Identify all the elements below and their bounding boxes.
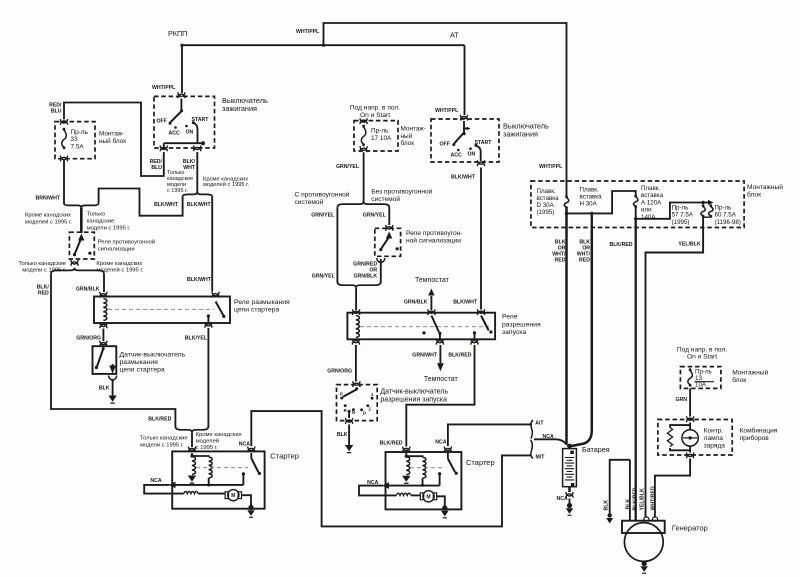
note except canadian models 2 bbox=[25, 213, 72, 226]
svg-text:RED/: RED/ bbox=[150, 159, 163, 165]
svg-text:WHT/PPL: WHT/PPL bbox=[435, 108, 459, 114]
ignition switch 2 name bbox=[503, 122, 549, 139]
svg-text:M: M bbox=[231, 493, 235, 499]
connector enable sensor bottom bbox=[346, 418, 353, 424]
svg-text:(1995): (1995) bbox=[537, 209, 555, 216]
starter cut-out sensor name bbox=[120, 352, 186, 374]
svg-text:Стартер: Стартер bbox=[270, 452, 299, 461]
junction at step bbox=[322, 44, 325, 47]
starter 1 switch lever bbox=[251, 458, 258, 472]
svg-text:зажигания: зажигания bbox=[222, 104, 257, 113]
wire BLK-WHT/RED 2 to battery bbox=[572, 230, 592, 446]
svg-text:60 7.5А: 60 7.5А bbox=[715, 212, 737, 219]
connector starter 2 left terminal bbox=[403, 447, 410, 453]
wire BLK/RED long left loop bbox=[51, 274, 175, 427]
svg-text:GRN/WHT: GRN/WHT bbox=[412, 353, 438, 359]
junction switch 2 branch bbox=[463, 127, 466, 130]
wire enable sensor out bbox=[348, 411, 350, 418]
enable sensor contact 1 bbox=[371, 397, 374, 400]
svg-text:BLK/RED: BLK/RED bbox=[380, 440, 403, 446]
contact OFF switch 1 bbox=[169, 122, 172, 125]
svg-text:BLK: BLK bbox=[603, 500, 609, 511]
contact ACC switch 2 bbox=[457, 149, 460, 152]
svg-text:YEL/BLK: YEL/BLK bbox=[639, 488, 645, 510]
antitheft relay 1 aux contact bbox=[88, 252, 91, 255]
svg-text:A/T: A/T bbox=[535, 421, 544, 427]
wire BLK/WHT switch 1 down bbox=[196, 152, 198, 192]
contact OFF switch 2 bbox=[452, 143, 455, 146]
connector fuse 17 bottom bbox=[360, 146, 367, 152]
svg-text:Реле противоугонной: Реле противоугонной bbox=[98, 239, 155, 246]
cut-out sensor pin bbox=[102, 347, 105, 350]
wire start relay sw1 to bottom bbox=[439, 333, 441, 338]
connector fuse 17 top bbox=[360, 118, 367, 124]
svg-text:OFF: OFF bbox=[157, 118, 167, 124]
svg-text:блок: блок bbox=[401, 139, 415, 147]
note under voltage On Start 2 bbox=[677, 347, 727, 361]
svg-text:цепи стартера: цепи стартера bbox=[234, 306, 279, 313]
junction switch 2 lever pivot bbox=[463, 132, 466, 135]
antitheft relay 1 arrow bbox=[78, 234, 84, 241]
wire label BLK OR WHT/RED 2 bbox=[577, 240, 591, 264]
start relay lever 2 bbox=[481, 316, 489, 331]
connector starter 1 NCA terminal bbox=[248, 447, 255, 453]
svg-text:Батарея: Батарея bbox=[582, 445, 610, 454]
svg-text:BLK/WHT: BLK/WHT bbox=[453, 299, 478, 305]
connector ignition switch 1 top bbox=[178, 92, 185, 98]
connector fuse 33 top bbox=[60, 119, 67, 125]
svg-text:RED: RED bbox=[555, 258, 566, 264]
wire NCA to battery bbox=[534, 439, 567, 445]
starter cut-out relay box bbox=[94, 297, 230, 324]
wire starter 1 hold winding down bbox=[208, 478, 210, 485]
wire NCA starter 1 long loop bbox=[251, 411, 531, 526]
ignition switch 2 box bbox=[431, 119, 499, 162]
svg-text:Темпостат: Темпостат bbox=[424, 376, 459, 383]
connector antitheft relay 2 out bbox=[377, 258, 385, 263]
svg-text:BLU: BLU bbox=[151, 165, 162, 171]
fuse 33 value label bbox=[71, 129, 89, 151]
wire battery bottom bbox=[568, 487, 571, 492]
svg-text:GRN/YEL: GRN/YEL bbox=[363, 213, 387, 219]
svg-text:системой: системой bbox=[295, 198, 324, 206]
connector cut-out sensor top bbox=[100, 341, 107, 347]
start enable sensor box bbox=[337, 385, 378, 421]
svg-text:GRN: GRN bbox=[676, 397, 688, 403]
connector starter 2 NCA terminal bbox=[444, 447, 451, 453]
svg-text:Н 30А: Н 30А bbox=[580, 201, 598, 208]
enable sensor contact R bbox=[344, 404, 347, 407]
junction D 30A tap bbox=[565, 212, 568, 215]
starter cut-out relay coil bbox=[103, 299, 106, 321]
contact ON switch 2 bbox=[469, 147, 472, 150]
merge BLK/RED + BLK/YEL into starter 1 bbox=[175, 427, 208, 433]
wire starter 1 motor loop bbox=[144, 485, 184, 494]
note except canadian models 4 bbox=[196, 432, 242, 451]
connector battery bottom bbox=[566, 492, 573, 498]
svg-text:10А: 10А bbox=[695, 381, 707, 388]
battery symbol bbox=[563, 449, 577, 487]
wire motor 2 to ground bbox=[437, 496, 445, 506]
starter cut-out relay mech dash bbox=[108, 308, 214, 310]
wire inside switch 1 bbox=[180, 99, 182, 112]
svg-text:WHT/PPL: WHT/PPL bbox=[152, 85, 176, 91]
wire lamp parallel top bbox=[670, 423, 690, 453]
svg-text:BLK/WHT: BLK/WHT bbox=[187, 277, 212, 283]
start relay aux dot bbox=[422, 331, 425, 334]
svg-text:D 30А: D 30А bbox=[537, 202, 555, 209]
wire YEL/BLK jog down bbox=[646, 218, 704, 266]
svg-text:Без противоугонной: Без противоугонной bbox=[371, 188, 432, 196]
wire GRN/WHT thermostat bbox=[439, 345, 441, 364]
ground enable sensor bbox=[345, 445, 353, 453]
fuse Пр-ль 17 10A bbox=[361, 125, 366, 146]
cut-out sensor contact bbox=[95, 366, 98, 369]
svg-text:BLK/: BLK/ bbox=[183, 159, 196, 165]
wire GRN/ORG to sensor bbox=[355, 345, 357, 382]
svg-text:Плавк.: Плавк. bbox=[641, 185, 660, 192]
wire A 120A down jog bbox=[636, 203, 711, 219]
svg-text:START: START bbox=[475, 140, 493, 146]
wire BLK/RED relay to starter 2 bbox=[406, 345, 474, 447]
svg-text:BLU: BLU bbox=[51, 109, 62, 115]
svg-text:BLK/RED: BLK/RED bbox=[448, 353, 471, 359]
svg-text:Под напр. в пол.: Под напр. в пол. bbox=[350, 105, 400, 112]
fusible link D label bbox=[537, 188, 560, 216]
svg-text:GRN/ORG: GRN/ORG bbox=[76, 335, 101, 341]
note except canadian models 3 bbox=[96, 261, 143, 274]
cut-out sensor arrow bbox=[109, 366, 116, 374]
svg-text:Комбинация: Комбинация bbox=[740, 427, 778, 435]
note only canadian models 2 bbox=[87, 212, 131, 232]
junction starter 1 windings bbox=[190, 454, 193, 457]
svg-text:Монтаж-: Монтаж- bbox=[401, 126, 426, 133]
ground starter 1 bbox=[247, 505, 255, 517]
enable sensor out dot bbox=[348, 410, 351, 413]
connector A/T-M/T brace bbox=[531, 420, 533, 459]
svg-text:17 10А: 17 10А bbox=[371, 135, 392, 142]
svg-text:Темпостат: Темпостат bbox=[415, 277, 450, 284]
svg-text:START: START bbox=[192, 117, 210, 123]
charge lamp name bbox=[704, 428, 726, 450]
start enable sensor name bbox=[380, 389, 448, 404]
connector switch 1 BLK/WHT terminal bbox=[194, 146, 201, 152]
starter cut-out relay contact right bbox=[222, 315, 225, 318]
svg-text:блок: блок bbox=[732, 376, 746, 384]
starter 1 fixed contact bbox=[242, 472, 245, 475]
wire jog D to A bbox=[567, 191, 636, 213]
svg-text:P: P bbox=[340, 391, 343, 396]
svg-text:Плавк.: Плавк. bbox=[580, 187, 599, 194]
connector switch 2 BLK/WHT terminal bbox=[477, 160, 484, 166]
wire merged to start relay bbox=[355, 288, 357, 310]
wire into starter 1 bbox=[191, 432, 193, 447]
svg-text:размыкания: размыкания bbox=[120, 359, 159, 366]
fuse block 33 box (Монтажный блок) bbox=[55, 122, 95, 159]
connector relay 1 coil top bbox=[100, 292, 107, 298]
fusible link H label bbox=[580, 187, 603, 208]
charge lamp bulb bbox=[682, 430, 698, 446]
junction starter 2 windings bbox=[405, 455, 408, 458]
svg-text:ON: ON bbox=[468, 152, 476, 158]
contact ON switch 1 bbox=[185, 125, 188, 128]
starter 2 mech dash bbox=[410, 467, 445, 469]
wire to antitheft relay 1 bbox=[80, 208, 83, 233]
wire starter 1 entry bbox=[191, 453, 193, 456]
svg-text:GRN/ORG: GRN/ORG bbox=[327, 368, 352, 374]
ground generator bbox=[640, 561, 648, 573]
enable sensor contact P bbox=[340, 397, 343, 400]
svg-text:ACC: ACC bbox=[451, 153, 462, 159]
svg-text:GRN/BLK: GRN/BLK bbox=[353, 273, 377, 279]
wire starter 2 winding link bbox=[406, 455, 422, 458]
wire NCA starter 2 up bbox=[448, 424, 532, 446]
wire inside switch 2 bbox=[463, 121, 465, 133]
wire starter 2 NCA terminal down bbox=[447, 453, 449, 459]
svg-text:NCA: NCA bbox=[435, 440, 446, 446]
connector antitheft relay 2 top bbox=[386, 225, 393, 231]
svg-text:ный блок: ный блок bbox=[99, 137, 126, 145]
wire GRN/BLK thermostat bbox=[430, 296, 432, 310]
note without antitheft system bbox=[371, 188, 432, 203]
wire GRN down bbox=[689, 388, 691, 416]
svg-text:АТ: АТ bbox=[450, 31, 459, 40]
start enable relay coil bbox=[356, 316, 359, 338]
switch 1 lever pivot bbox=[180, 109, 183, 112]
wire BLK/WHT right branch down bbox=[211, 197, 213, 292]
thermostat arrow up bbox=[428, 289, 434, 296]
connector instrument cluster top bbox=[687, 416, 694, 422]
svg-text:Пр-ль: Пр-ль bbox=[672, 205, 689, 212]
contact START switch 2 bbox=[474, 144, 477, 147]
svg-text:ON: ON bbox=[186, 129, 194, 135]
svg-text:ACC: ACC bbox=[169, 131, 180, 137]
svg-text:цепи стартера: цепи стартера bbox=[120, 367, 165, 374]
svg-text:OFF: OFF bbox=[440, 142, 450, 148]
switch 2 lever OFF bbox=[454, 133, 464, 144]
junction H 30A tap bbox=[590, 212, 593, 215]
wire BLK/WHT left branch loop bbox=[99, 189, 183, 216]
svg-text:N: N bbox=[352, 410, 355, 415]
fuse Пр-ль 33 7.5A bbox=[62, 128, 67, 149]
starter cut-out relay name bbox=[234, 299, 290, 313]
svg-text:GRN/YEL: GRN/YEL bbox=[312, 273, 336, 279]
svg-text:Монтаж-: Монтаж- bbox=[99, 131, 124, 138]
wire BRN/WHT fuse 33 down bbox=[63, 160, 65, 205]
starter 2 motor inductor bbox=[396, 493, 410, 495]
connector instrument cluster bottom bbox=[687, 453, 694, 459]
wire START 2 contact down bbox=[476, 146, 481, 161]
note under voltage On Start 1 bbox=[350, 105, 400, 120]
ground starter 1 winding bbox=[188, 476, 196, 484]
wire BLK-WHT/RED 1 to battery bbox=[565, 209, 568, 445]
connector fuse 33 bottom bbox=[60, 156, 67, 162]
junction fuse 57 tap bbox=[701, 201, 704, 204]
fuse 13 value label bbox=[695, 369, 712, 389]
wire BLK ground loop bbox=[610, 460, 630, 514]
starter 2 pull-in winding bbox=[406, 457, 409, 475]
svg-text:RED/: RED/ bbox=[49, 103, 62, 109]
svg-text:WHT/PPL: WHT/PPL bbox=[296, 29, 320, 35]
connector relay 1 coil bottom bbox=[100, 323, 107, 329]
svg-text:GRN/BLK: GRN/BLK bbox=[404, 299, 428, 305]
svg-text:GRN/YEL: GRN/YEL bbox=[336, 164, 360, 170]
svg-text:Под напр. в пол.: Под напр. в пол. bbox=[677, 347, 727, 354]
wire inductor to motor 2 bbox=[411, 494, 420, 496]
starter 1 hold winding bbox=[209, 457, 212, 478]
ground cut-out sensor bbox=[108, 396, 116, 404]
fuse Пр-ль 57 7.5A bbox=[701, 204, 706, 217]
start relay contact 2 bbox=[489, 330, 492, 333]
wire BLK to ground bbox=[112, 379, 114, 396]
start relay lever 1 bbox=[431, 316, 439, 333]
starter cut-out relay contact left bbox=[207, 314, 210, 317]
wire starter 1 NCA terminal down bbox=[250, 453, 252, 458]
svg-text:Кроме канадских: Кроме канадских bbox=[96, 261, 142, 267]
svg-text:BLK/WHT: BLK/WHT bbox=[187, 202, 212, 208]
split antitheft middle bbox=[337, 202, 389, 208]
fuse 13 underline bbox=[695, 381, 715, 383]
svg-text:Только канадские: Только канадские bbox=[18, 261, 66, 267]
svg-text:Стартер: Стартер bbox=[466, 458, 495, 467]
wire switch 1 internal link bbox=[164, 143, 203, 147]
svg-text:Кроме канадских: Кроме канадских bbox=[25, 213, 71, 219]
starter 2 switch contact bbox=[455, 472, 458, 475]
starter 2 switch lever bbox=[448, 459, 455, 472]
wire starter 1 contact down bbox=[242, 474, 244, 485]
starter 1 switch contact bbox=[258, 472, 261, 475]
starter 1 mech dash bbox=[196, 467, 248, 469]
wire starter 2 contact down bbox=[439, 474, 441, 486]
starter 1 motor M bbox=[225, 490, 241, 501]
fuse block right box bbox=[531, 181, 744, 228]
wire WHT/PPL AT down to right ignition switch bbox=[464, 45, 466, 115]
antitheft relay 2 contact bbox=[379, 248, 382, 251]
start enable relay box bbox=[347, 313, 495, 340]
connector start relay coil top bbox=[353, 309, 360, 315]
connector switch 1 RED/BLU terminal bbox=[160, 146, 167, 152]
svg-text:разрешения запуска: разрешения запуска bbox=[380, 397, 447, 404]
antitheft relay 1 lever bbox=[75, 240, 81, 254]
connector start relay sw2 bottom bbox=[471, 339, 478, 345]
wire label RED/BLU under switch 1 bbox=[150, 159, 163, 171]
antitheft relay 2 lever bbox=[381, 238, 388, 249]
svg-text:33: 33 bbox=[71, 136, 79, 143]
svg-text:модели с 1995 г.: модели с 1995 г. bbox=[140, 442, 184, 448]
resistor charge lamp bbox=[667, 428, 672, 447]
junction switch 1 link end bbox=[201, 141, 205, 145]
svg-text:On и Start: On и Start bbox=[687, 354, 717, 361]
wire BLK to ground 2 bbox=[348, 425, 350, 446]
svg-text:BLK/WHT: BLK/WHT bbox=[154, 202, 179, 208]
generator terminals bbox=[644, 517, 649, 521]
starter 1 NCA arrow bbox=[169, 482, 176, 489]
svg-text:Реле: Реле bbox=[502, 314, 518, 321]
wire starter 2 hold winding down bbox=[422, 478, 424, 485]
svg-text:Только канадские: Только канадские bbox=[140, 436, 188, 442]
antitheft relay 2 box bbox=[375, 228, 401, 256]
junction РКПП node bbox=[180, 44, 183, 47]
cut-out sensor out stub bbox=[112, 364, 114, 368]
svg-text:BLK/RED: BLK/RED bbox=[148, 417, 171, 423]
connector cut-out sensor bottom bbox=[109, 376, 117, 381]
svg-text:моделей с 1995 г.: моделей с 1995 г. bbox=[25, 219, 72, 226]
starter 2 fixed contact bbox=[438, 472, 441, 475]
enable sensor pin bbox=[355, 387, 358, 390]
contact ACC switch 1 bbox=[174, 126, 177, 129]
svg-text:7.5А: 7.5А bbox=[71, 143, 85, 150]
fusible link A 120A bbox=[633, 195, 638, 208]
fuse block 13 name bbox=[732, 369, 768, 385]
svg-text:вставка: вставка bbox=[537, 195, 560, 202]
note only canadian models 1 bbox=[167, 170, 193, 194]
antitheft relay 1 contact bbox=[73, 253, 76, 256]
svg-text:Пр-ль: Пр-ль bbox=[71, 129, 89, 136]
ground starter 2 bbox=[441, 505, 449, 517]
svg-text:M: M bbox=[426, 494, 430, 500]
svg-text:приборов: приборов bbox=[740, 434, 770, 442]
fuse 60 label bbox=[715, 205, 741, 226]
wire inductor to motor 1 bbox=[198, 493, 225, 495]
svg-text:системой: системой bbox=[371, 195, 400, 203]
wire START contact down bbox=[193, 123, 197, 143]
start relay contact 2b bbox=[473, 331, 476, 334]
junction A 120A bbox=[634, 217, 637, 220]
connector start relay sw1 top bbox=[428, 309, 435, 315]
connector start relay sw2 top bbox=[477, 309, 484, 315]
fusible link A label bbox=[641, 185, 664, 221]
connector start relay sw1 bottom bbox=[436, 339, 443, 345]
enable sensor contact D bbox=[360, 408, 363, 411]
svg-text:BLK/YEL: BLK/YEL bbox=[185, 335, 208, 341]
svg-text:Только: Только bbox=[87, 212, 105, 218]
switch 1 lever OFF bbox=[171, 111, 182, 122]
svg-text:запуска: запуска bbox=[502, 329, 526, 336]
fuse 60 arrow bbox=[708, 200, 714, 205]
svg-text:BLK/RED: BLK/RED bbox=[632, 487, 638, 510]
wire relay 1 contact to terminal bbox=[207, 316, 209, 322]
starter 1 box bbox=[172, 451, 264, 508]
svg-text:ный: ный bbox=[401, 132, 413, 140]
wire top horizontal to AT bbox=[181, 44, 465, 46]
svg-text:ной сигнализации: ной сигнализации bbox=[406, 237, 461, 245]
svg-text:сигнализации: сигнализации bbox=[98, 247, 135, 253]
svg-text:NCA: NCA bbox=[239, 441, 250, 447]
starter 1 pull-in winding bbox=[192, 457, 195, 475]
svg-text:Реле размыкания: Реле размыкания bbox=[234, 299, 290, 306]
svg-text:RED: RED bbox=[38, 291, 49, 297]
svg-text:Монтажный: Монтажный bbox=[732, 369, 768, 377]
contact START switch 1 bbox=[192, 121, 195, 124]
merge BRN/WHT + BLK/WHT bbox=[64, 203, 99, 208]
junction starter 2 hold winding bbox=[421, 484, 424, 487]
enable sensor contact 2 bbox=[366, 404, 369, 407]
generator box bbox=[622, 521, 665, 533]
junction starter 1 hold winding bbox=[207, 483, 210, 486]
svg-text:57 7.5А: 57 7.5А bbox=[672, 212, 694, 219]
starter 1 motor inductor bbox=[184, 491, 198, 493]
svg-text:вставка: вставка bbox=[641, 192, 664, 199]
connector relay 1 switch top bbox=[212, 292, 219, 298]
svg-text:BLK/: BLK/ bbox=[37, 285, 50, 291]
connector starter 1 left terminal bbox=[188, 447, 195, 453]
wire H 30A down bbox=[591, 213, 593, 230]
svg-text:GRN/YEL: GRN/YEL bbox=[311, 213, 335, 219]
svg-text:лампа: лампа bbox=[704, 435, 724, 442]
wire WHT/PPL top step up bbox=[324, 23, 567, 196]
svg-text:разрешения: разрешения bbox=[502, 321, 541, 328]
svg-text:Реле противоугон-: Реле противоугон- bbox=[406, 230, 462, 237]
